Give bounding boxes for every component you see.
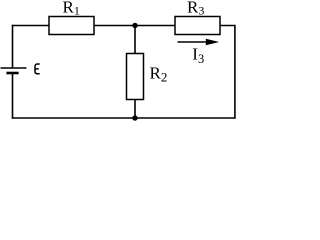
svg-text:R1: R1: [63, 0, 80, 18]
battery EMF source: long positive plate: [1, 67, 27, 69]
current arrow I3 (under R3): [178, 41, 209, 43]
node junction dot bottom: [132, 115, 137, 120]
wire left lower (battery down to bottom corner): [12, 73, 14, 119]
label ε (EMF): [35, 64, 40, 74]
svg-text:R2: R2: [150, 63, 168, 84]
wire right side: [234, 25, 236, 119]
wire left upper (top corner down to battery): [12, 25, 14, 68]
wire middle branch (top node down to bottom node): [134, 26, 136, 119]
svg-text:I3: I3: [192, 45, 204, 66]
wire top (from battery top corner across to right corner): [12, 25, 235, 27]
node junction dot top: [132, 23, 137, 28]
resistor R2 (vertical box): [127, 54, 144, 100]
wire bottom: [12, 117, 236, 119]
battery EMF source: short thick negative plate: [6, 72, 18, 75]
svg-text:R3: R3: [187, 0, 204, 18]
resistor R3 (box): [175, 17, 220, 35]
resistor R1 (box): [49, 17, 94, 35]
